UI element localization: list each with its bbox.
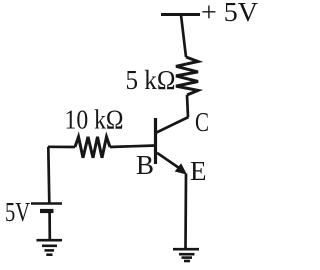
+5V supply rail bar	[161, 13, 200, 16]
ground G2 (right, under emitter)	[173, 249, 199, 261]
wire resistor bottom to collector bend	[187, 95, 188, 117]
battery V1 top plate (long)	[31, 202, 62, 205]
svg-text:+ 5V: + 5V	[201, 0, 259, 27]
resistor R2 10 kΩ (horizontal zigzag)	[75, 137, 110, 158]
svg-text:B: B	[136, 150, 154, 180]
transistor Q1 emitter lead	[157, 153, 182, 170]
transistor Q1 emitter arrowhead	[175, 163, 187, 174]
wire rail to resistor R1 top	[181, 15, 186, 57]
svg-text:5 kΩ: 5 kΩ	[126, 65, 176, 95]
resistor R1 5 kΩ (vertical zigzag)	[176, 57, 198, 95]
svg-text:E: E	[190, 156, 207, 186]
base wire left segment	[48, 145, 75, 148]
left wire base node down to battery	[48, 147, 49, 203]
wire battery to left ground	[48, 213, 51, 239]
battery V1 bottom plate (short, thick)	[40, 209, 54, 213]
collector lead diagonal to node C	[157, 117, 189, 133]
svg-text:10 kΩ: 10 kΩ	[65, 105, 124, 135]
emitter wire down to ground	[184, 174, 187, 250]
ground G1 (left, under battery)	[37, 240, 63, 255]
transistor Q1 base bar	[154, 118, 157, 164]
base wire right segment to base bar	[110, 146, 156, 148]
svg-text:C: C	[195, 107, 209, 137]
svg-text:5V: 5V	[5, 197, 30, 227]
